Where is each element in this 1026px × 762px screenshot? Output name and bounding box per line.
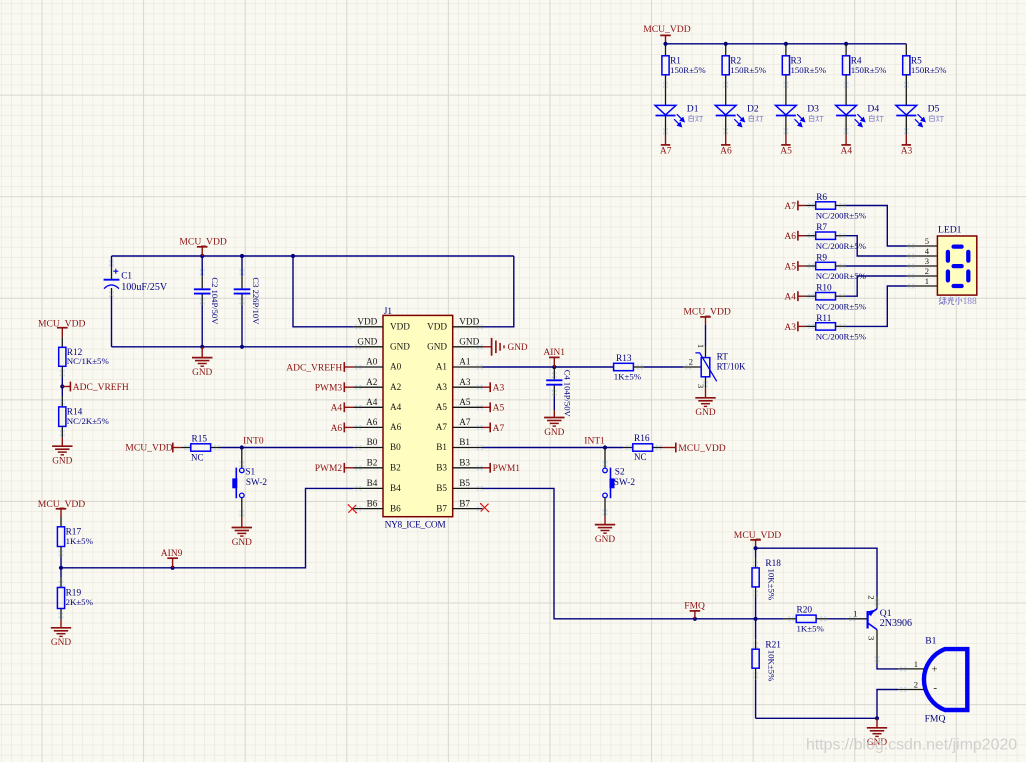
svg-text:NC/200R±5%: NC/200R±5% bbox=[816, 332, 867, 342]
svg-text:B1: B1 bbox=[925, 636, 936, 647]
svg-text:A7: A7 bbox=[493, 424, 505, 434]
svg-text:GND: GND bbox=[695, 408, 715, 418]
svg-text:A3: A3 bbox=[784, 323, 796, 333]
svg-text:4: 4 bbox=[925, 246, 930, 256]
svg-text:A2: A2 bbox=[390, 382, 402, 392]
svg-text:R7: R7 bbox=[816, 223, 827, 233]
svg-text:B7: B7 bbox=[436, 503, 447, 513]
svg-text:5: 5 bbox=[925, 236, 929, 246]
svg-text:B3: B3 bbox=[459, 458, 470, 468]
svg-text:A2: A2 bbox=[366, 377, 378, 387]
svg-text:RT/10K: RT/10K bbox=[717, 361, 746, 371]
svg-text:S2: S2 bbox=[615, 468, 625, 478]
svg-text:SW-2: SW-2 bbox=[614, 478, 636, 488]
svg-text:150R±5%: 150R±5% bbox=[851, 65, 887, 75]
svg-text:R9: R9 bbox=[816, 253, 827, 263]
svg-text:NC/200R±5%: NC/200R±5% bbox=[816, 211, 867, 221]
svg-text:PWM3: PWM3 bbox=[315, 384, 343, 394]
svg-text:GND: GND bbox=[544, 428, 564, 438]
svg-text:LED1: LED1 bbox=[938, 225, 962, 236]
svg-text:INT1: INT1 bbox=[584, 437, 605, 447]
svg-text:B7: B7 bbox=[459, 498, 470, 508]
svg-text:B4: B4 bbox=[390, 483, 401, 493]
svg-text:NC/1K±5%: NC/1K±5% bbox=[67, 356, 110, 366]
svg-text:NC/200R±5%: NC/200R±5% bbox=[816, 241, 867, 251]
svg-text:A5: A5 bbox=[784, 262, 796, 272]
svg-text:R15: R15 bbox=[192, 434, 208, 444]
svg-text:10K±5%: 10K±5% bbox=[767, 569, 777, 601]
svg-text:B0: B0 bbox=[367, 437, 378, 447]
svg-text:A6: A6 bbox=[331, 424, 343, 434]
svg-text:J1: J1 bbox=[384, 307, 393, 317]
svg-text:A0: A0 bbox=[390, 362, 402, 372]
svg-text:1: 1 bbox=[696, 344, 706, 348]
svg-text:AIN1: AIN1 bbox=[543, 348, 565, 358]
svg-text:MCU_VDD: MCU_VDD bbox=[678, 443, 726, 454]
svg-text:D4: D4 bbox=[867, 103, 879, 114]
svg-text:-: - bbox=[933, 682, 937, 694]
svg-text:1K±5%: 1K±5% bbox=[66, 536, 94, 546]
svg-text:10K±5%: 10K±5% bbox=[767, 650, 777, 682]
svg-text:A5: A5 bbox=[780, 147, 792, 157]
svg-text:C4 104P/50V: C4 104P/50V bbox=[563, 370, 573, 418]
svg-text:GND: GND bbox=[595, 535, 615, 545]
svg-text:ADC_VREFH: ADC_VREFH bbox=[73, 383, 129, 393]
svg-text:GND: GND bbox=[508, 343, 528, 353]
svg-text:2K±5%: 2K±5% bbox=[66, 597, 94, 607]
svg-text:A4: A4 bbox=[841, 147, 853, 157]
svg-text:150R±5%: 150R±5% bbox=[911, 65, 947, 75]
svg-text:A4: A4 bbox=[366, 397, 378, 407]
svg-text:https://blog.csdn.net/jimp2020: https://blog.csdn.net/jimp2020 bbox=[806, 737, 1017, 754]
svg-text:C3 226P/10V: C3 226P/10V bbox=[251, 277, 261, 325]
svg-text:A5: A5 bbox=[436, 402, 448, 412]
svg-text:+: + bbox=[932, 664, 938, 675]
svg-text:A3: A3 bbox=[901, 147, 913, 157]
svg-text:FMQ: FMQ bbox=[684, 601, 705, 611]
svg-text:A0: A0 bbox=[366, 357, 378, 367]
svg-text:A7: A7 bbox=[459, 417, 471, 427]
svg-text:B6: B6 bbox=[367, 498, 378, 508]
svg-text:D2: D2 bbox=[747, 103, 759, 114]
svg-text:2N3906: 2N3906 bbox=[880, 618, 912, 629]
svg-text:A7: A7 bbox=[436, 422, 448, 432]
svg-text:A5: A5 bbox=[459, 397, 471, 407]
svg-text:A4: A4 bbox=[784, 293, 796, 303]
svg-text:B6: B6 bbox=[390, 503, 401, 513]
svg-text:2: 2 bbox=[914, 679, 918, 689]
svg-text:150R±5%: 150R±5% bbox=[670, 65, 706, 75]
svg-text:PWM2: PWM2 bbox=[315, 464, 343, 474]
svg-text:150R±5%: 150R±5% bbox=[730, 65, 766, 75]
svg-text:B5: B5 bbox=[459, 478, 470, 488]
svg-text:1: 1 bbox=[914, 659, 918, 669]
svg-text:1: 1 bbox=[853, 608, 857, 618]
svg-text:A6: A6 bbox=[366, 417, 378, 427]
svg-text:1: 1 bbox=[925, 276, 929, 286]
svg-text:ADC_VREFH: ADC_VREFH bbox=[286, 363, 342, 373]
svg-text:R10: R10 bbox=[816, 284, 832, 294]
svg-text:D1: D1 bbox=[687, 103, 699, 114]
svg-text:A1: A1 bbox=[459, 357, 471, 367]
svg-text:A4: A4 bbox=[390, 402, 402, 412]
svg-text:GND: GND bbox=[192, 368, 212, 378]
svg-text:150R±5%: 150R±5% bbox=[791, 65, 827, 75]
svg-text:GND: GND bbox=[232, 538, 252, 548]
svg-text:R13: R13 bbox=[616, 354, 632, 364]
svg-text:A4: A4 bbox=[331, 404, 343, 414]
svg-text:MCU_VDD: MCU_VDD bbox=[643, 24, 691, 35]
svg-text:3: 3 bbox=[925, 256, 929, 266]
svg-text:R16: R16 bbox=[634, 434, 650, 444]
svg-text:A7: A7 bbox=[784, 202, 796, 212]
svg-text:R11: R11 bbox=[816, 314, 832, 324]
svg-text:A3: A3 bbox=[459, 377, 471, 387]
svg-text:GND: GND bbox=[51, 638, 71, 648]
svg-text:A6: A6 bbox=[390, 422, 402, 432]
svg-text:D3: D3 bbox=[807, 103, 819, 114]
svg-text:NC: NC bbox=[191, 452, 204, 462]
svg-text:VDD: VDD bbox=[427, 322, 447, 332]
svg-text:PWM1: PWM1 bbox=[493, 464, 521, 474]
svg-text:C2 104P/50V: C2 104P/50V bbox=[210, 277, 220, 325]
svg-text:B5: B5 bbox=[436, 483, 447, 493]
svg-text:A1: A1 bbox=[436, 362, 448, 372]
svg-text:NC/200R±5%: NC/200R±5% bbox=[816, 301, 867, 311]
svg-text:GND: GND bbox=[390, 342, 410, 352]
svg-text:2: 2 bbox=[689, 357, 693, 367]
svg-text:GND: GND bbox=[427, 342, 447, 352]
svg-text:B1: B1 bbox=[459, 437, 470, 447]
svg-text:VDD: VDD bbox=[459, 317, 479, 327]
svg-text:D5: D5 bbox=[928, 103, 940, 114]
svg-text:GND: GND bbox=[357, 337, 377, 347]
svg-text:A7: A7 bbox=[660, 147, 672, 157]
svg-text:2: 2 bbox=[866, 595, 876, 599]
svg-text:188: 188 bbox=[963, 297, 977, 307]
svg-text:3: 3 bbox=[866, 636, 876, 640]
svg-text:VDD: VDD bbox=[357, 317, 377, 327]
svg-text:VDD: VDD bbox=[390, 322, 410, 332]
svg-text:NY8_ICE_COM: NY8_ICE_COM bbox=[385, 521, 447, 531]
svg-text:GND: GND bbox=[459, 337, 479, 347]
svg-text:R20: R20 bbox=[797, 606, 813, 616]
svg-text:SW-2: SW-2 bbox=[246, 478, 268, 488]
svg-text:C1: C1 bbox=[121, 271, 132, 281]
svg-text:2: 2 bbox=[925, 266, 929, 276]
svg-text:B2: B2 bbox=[367, 458, 378, 468]
svg-text:GND: GND bbox=[52, 457, 72, 467]
svg-text:B3: B3 bbox=[436, 463, 447, 473]
svg-text:R6: R6 bbox=[816, 193, 827, 203]
svg-text:NC: NC bbox=[634, 452, 647, 462]
svg-text:1K±5%: 1K±5% bbox=[797, 624, 825, 634]
svg-text:100uF/25V: 100uF/25V bbox=[121, 282, 168, 293]
svg-text:FMQ: FMQ bbox=[925, 714, 946, 725]
svg-text:NC/2K±5%: NC/2K±5% bbox=[67, 416, 110, 426]
svg-text:MCU_VDD: MCU_VDD bbox=[683, 307, 731, 318]
svg-text:A5: A5 bbox=[493, 404, 505, 414]
svg-text:MCU_VDD: MCU_VDD bbox=[179, 236, 227, 247]
svg-text:A6: A6 bbox=[720, 147, 732, 157]
svg-text:R18: R18 bbox=[765, 559, 781, 569]
svg-text:A3: A3 bbox=[493, 384, 505, 394]
svg-text:A3: A3 bbox=[436, 382, 448, 392]
svg-text:S1: S1 bbox=[245, 468, 255, 478]
svg-text:B0: B0 bbox=[390, 442, 401, 452]
svg-text:INT0: INT0 bbox=[243, 437, 264, 447]
svg-text:1K±5%: 1K±5% bbox=[614, 372, 642, 382]
svg-text:B1: B1 bbox=[436, 442, 447, 452]
svg-text:A6: A6 bbox=[784, 232, 796, 242]
svg-text:Q1: Q1 bbox=[880, 608, 892, 619]
svg-text:B2: B2 bbox=[390, 463, 401, 473]
svg-text:B4: B4 bbox=[367, 478, 378, 488]
svg-text:MCU_VDD: MCU_VDD bbox=[125, 443, 173, 454]
